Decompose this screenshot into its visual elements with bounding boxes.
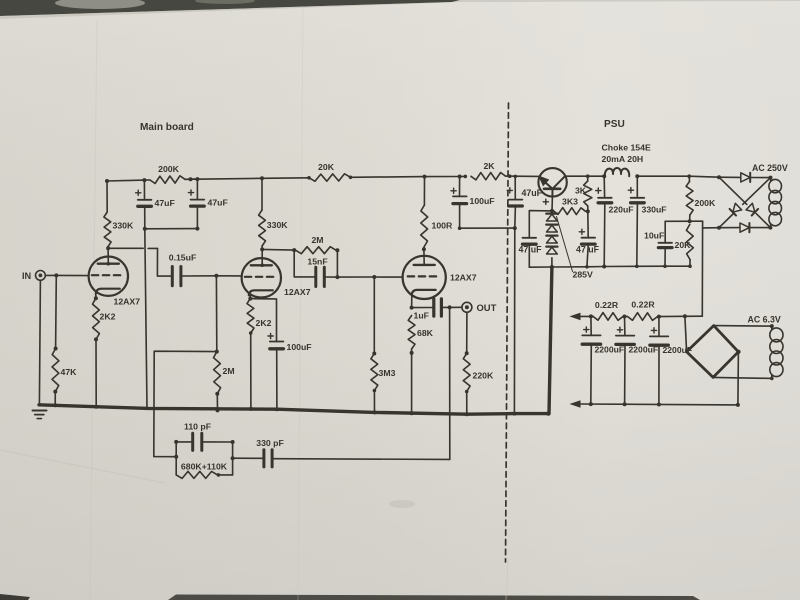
svg-text:200K: 200K bbox=[158, 164, 179, 174]
svg-text:285V: 285V bbox=[573, 270, 593, 280]
wire C2 to U2 grid bbox=[182, 275, 242, 277]
wire feedback run bbox=[273, 458, 449, 461]
tube U1 12AX7 bbox=[89, 257, 128, 296]
zener stack 285V bbox=[546, 213, 557, 215]
svg-text:110 pF: 110 pF bbox=[184, 422, 211, 432]
wire psu mid ground link bbox=[460, 227, 515, 229]
wire feedback tap bracket bbox=[154, 351, 217, 457]
svg-text:330uF: 330uF bbox=[642, 205, 667, 215]
diode D1 top bbox=[741, 173, 750, 182]
svg-text:2K: 2K bbox=[483, 161, 495, 171]
resistor 3K bbox=[587, 176, 589, 181]
blurred object on table top bbox=[55, 0, 145, 9]
capacitor 2200uF c bbox=[658, 317, 660, 337]
wire divider tap down bbox=[701, 221, 703, 316]
svg-text:47 uF: 47 uF bbox=[519, 245, 543, 255]
resistor 3K3 bbox=[554, 208, 586, 215]
wire caps node to ground bus bbox=[145, 229, 147, 409]
transistor Q1 bbox=[538, 168, 566, 196]
resistor 0.22R a bbox=[593, 313, 623, 321]
tube U2 12AX7 bbox=[242, 258, 281, 297]
capacitor 47uF C bbox=[514, 176, 516, 199]
polarity + 220uF bbox=[596, 190, 601, 192]
svg-text:OUT: OUT bbox=[477, 302, 497, 313]
capacitor 2200uF a bbox=[590, 316, 592, 335]
resistor 200K psu bbox=[688, 176, 690, 181]
svg-text:47 uF: 47 uF bbox=[576, 245, 600, 255]
svg-text:0.22R: 0.22R bbox=[631, 300, 655, 310]
svg-text:47K: 47K bbox=[61, 367, 78, 377]
capacitor 47uF B bbox=[196, 179, 198, 200]
svg-text:IN: IN bbox=[22, 271, 32, 281]
capacitor 110pF bbox=[176, 441, 191, 443]
resistor 3M3 bbox=[373, 277, 375, 354]
resistor 330K stage2 bbox=[261, 178, 263, 210]
tube U3 12AX7 bbox=[403, 256, 446, 299]
arrow heater bottom bbox=[570, 400, 581, 408]
ground bus bbox=[39, 405, 548, 414]
svg-text:100uF: 100uF bbox=[470, 196, 495, 206]
capacitor 330pF bbox=[262, 450, 265, 467]
wire caps bottom join bbox=[145, 228, 198, 230]
svg-text:3M3: 3M3 bbox=[379, 368, 396, 378]
wire U1 plate lead bbox=[107, 248, 109, 263]
svg-text:68K: 68K bbox=[417, 328, 434, 338]
wire 330pF to network bbox=[233, 457, 263, 459]
wire U1 cathode lead bbox=[95, 294, 97, 298]
svg-text:330 pF: 330 pF bbox=[256, 438, 284, 448]
capacitor 47uF E right bbox=[587, 211, 589, 237]
wire BL stub bbox=[703, 227, 720, 229]
svg-text:AC 250V: AC 250V bbox=[752, 163, 788, 173]
resistor 68K bbox=[408, 316, 415, 350]
svg-text:20K: 20K bbox=[318, 162, 335, 172]
svg-text:3K3: 3K3 bbox=[562, 197, 578, 207]
svg-text:2K2: 2K2 bbox=[100, 312, 116, 322]
wire OUT node down to feedback bbox=[449, 307, 451, 459]
wire HT rail bbox=[107, 180, 150, 181]
resistor 2K psu bbox=[471, 173, 506, 180]
wire U1 plate to C2 bbox=[108, 247, 143, 249]
resistor 2M feedback bbox=[296, 247, 337, 254]
inductor choke L1 bbox=[605, 168, 629, 176]
svg-text:2M: 2M bbox=[223, 366, 235, 376]
resistor 2M grid bbox=[215, 276, 217, 352]
svg-text:Main board: Main board bbox=[140, 122, 194, 133]
svg-text:AC 6.3V: AC 6.3V bbox=[748, 314, 781, 324]
wire divider bracket bbox=[665, 220, 702, 222]
svg-text:10uF: 10uF bbox=[644, 231, 664, 241]
capacitor 1uF bbox=[412, 307, 433, 309]
network frame bbox=[175, 442, 177, 475]
capacitor 47uF D left bbox=[529, 211, 552, 238]
wire bridge top to coil bbox=[714, 325, 772, 328]
capacitor 220uF bbox=[603, 176, 605, 197]
polarity + 47uF C bbox=[507, 189, 512, 191]
resistor 330K stage1 bbox=[106, 181, 108, 212]
resistor 2K2 stage1 bbox=[93, 298, 100, 339]
arrow heater top bbox=[570, 313, 581, 321]
svg-text:15nF: 15nF bbox=[307, 257, 327, 267]
dark table edge top-left bbox=[0, 0, 460, 16]
polarity + 2200uF a bbox=[584, 329, 589, 331]
polarity + 2200uF b bbox=[617, 329, 622, 331]
wire IN jack to bus bbox=[39, 280, 40, 405]
resistor 100R bbox=[423, 177, 425, 205]
resistor 20K psu bbox=[686, 225, 693, 260]
connector OUT jack bbox=[450, 306, 462, 308]
wire bridge bottom edge bbox=[719, 227, 740, 229]
transformer HT winding bbox=[770, 178, 772, 181]
diode D3 diag bbox=[746, 203, 755, 212]
capacitor 10uF bbox=[664, 221, 666, 243]
wire heater bottom rail bbox=[579, 403, 738, 406]
polarity + 330uF bbox=[628, 189, 633, 191]
wire U2 cathode lead bbox=[249, 296, 251, 299]
wire U2 plate to network bbox=[262, 248, 294, 251]
annotation line 285V bbox=[557, 217, 573, 272]
capacitor 100uF cathode bbox=[250, 299, 276, 342]
capacitor 15nF bbox=[294, 250, 314, 277]
bridge rectifier heater bbox=[687, 326, 739, 378]
svg-text:200K: 200K bbox=[695, 198, 716, 208]
wire bridge diag TL-BR bbox=[719, 177, 747, 204]
svg-text:0.22R: 0.22R bbox=[595, 300, 619, 310]
polarity + 47uF B bbox=[188, 192, 193, 194]
resistor 20K bbox=[309, 174, 351, 182]
polarity + 2200uF c bbox=[651, 329, 656, 331]
ground symbol bbox=[33, 410, 47, 412]
polarity + 100uF psu bbox=[451, 190, 456, 192]
svg-text:220uF: 220uF bbox=[609, 205, 634, 215]
polarity + 47uF A bbox=[136, 192, 141, 194]
resistor 680K+110K bbox=[176, 471, 217, 478]
svg-text:PSU: PSU bbox=[604, 119, 625, 130]
svg-text:330K: 330K bbox=[267, 220, 288, 230]
wire thick HT return bbox=[549, 267, 552, 414]
svg-text:0.15uF: 0.15uF bbox=[169, 253, 197, 263]
svg-text:47uF: 47uF bbox=[208, 198, 228, 208]
svg-text:12AX7: 12AX7 bbox=[114, 297, 141, 307]
connector IN jack bbox=[36, 271, 46, 281]
faint creases bbox=[90, 20, 97, 600]
wire U2 plate lead bbox=[261, 249, 263, 265]
svg-text:Choke 154E: Choke 154E bbox=[602, 143, 651, 153]
wire psu drop to bus bbox=[513, 228, 515, 414]
resistor 47K bbox=[55, 275, 58, 348]
capacitor 2200uF b bbox=[624, 317, 626, 336]
diode D2 bottom bbox=[740, 223, 749, 232]
svg-text:330K: 330K bbox=[113, 221, 134, 231]
dark bottom edge bbox=[168, 595, 700, 600]
wire IN to grid bbox=[45, 274, 88, 276]
wire heater top rail bbox=[579, 315, 593, 317]
svg-text:680K+110K: 680K+110K bbox=[181, 462, 228, 472]
transformer heater winding bbox=[771, 326, 773, 329]
resistor 220K bbox=[466, 312, 468, 353]
wire bridge diag TR-BL bbox=[743, 178, 771, 205]
wire bridge right down bbox=[737, 352, 740, 405]
wire zener bottom rail bbox=[529, 266, 690, 267]
svg-text:220K: 220K bbox=[473, 371, 494, 381]
capacitor 47uF A bbox=[143, 180, 145, 200]
polarity + 47uF E bbox=[579, 231, 584, 233]
svg-text:20mA 20H: 20mA 20H bbox=[602, 154, 644, 164]
resistor 200K bbox=[150, 176, 185, 184]
wire Q1 base down bbox=[551, 197, 553, 211]
wire U3 cathode lead bbox=[411, 297, 413, 308]
capacitor 0.15uF bbox=[171, 267, 174, 286]
wire bridge bottom to coil bbox=[713, 377, 772, 378]
svg-text:47uF: 47uF bbox=[155, 198, 175, 208]
svg-text:20K: 20K bbox=[675, 240, 692, 250]
svg-text:100R: 100R bbox=[432, 221, 453, 231]
polarity + 100uF cathode bbox=[268, 335, 273, 337]
resistor 2K2 stage2 bbox=[247, 299, 254, 333]
svg-text:12AX7: 12AX7 bbox=[450, 273, 477, 283]
polarity + 47uF D bbox=[543, 201, 548, 203]
capacitor 330uF bbox=[636, 176, 638, 197]
resistor 0.22R b bbox=[628, 313, 658, 321]
dashed separator line bbox=[506, 103, 509, 562]
svg-text:2K2: 2K2 bbox=[256, 318, 272, 328]
wire U3 plate lead bbox=[423, 249, 425, 265]
wire network to U3 grid bbox=[337, 276, 402, 278]
svg-text:3K: 3K bbox=[575, 186, 587, 196]
wire bridge top edge bbox=[719, 176, 741, 178]
svg-text:12AX7: 12AX7 bbox=[284, 287, 311, 297]
capacitor 100uF psu bbox=[459, 177, 461, 197]
wire 200K tail bbox=[185, 178, 197, 180]
svg-text:1uF: 1uF bbox=[414, 311, 429, 321]
svg-text:2M: 2M bbox=[311, 235, 323, 245]
wire rail to bridge bbox=[685, 316, 687, 352]
svg-text:100uF: 100uF bbox=[287, 342, 312, 352]
diode D4 diag bbox=[733, 203, 742, 212]
